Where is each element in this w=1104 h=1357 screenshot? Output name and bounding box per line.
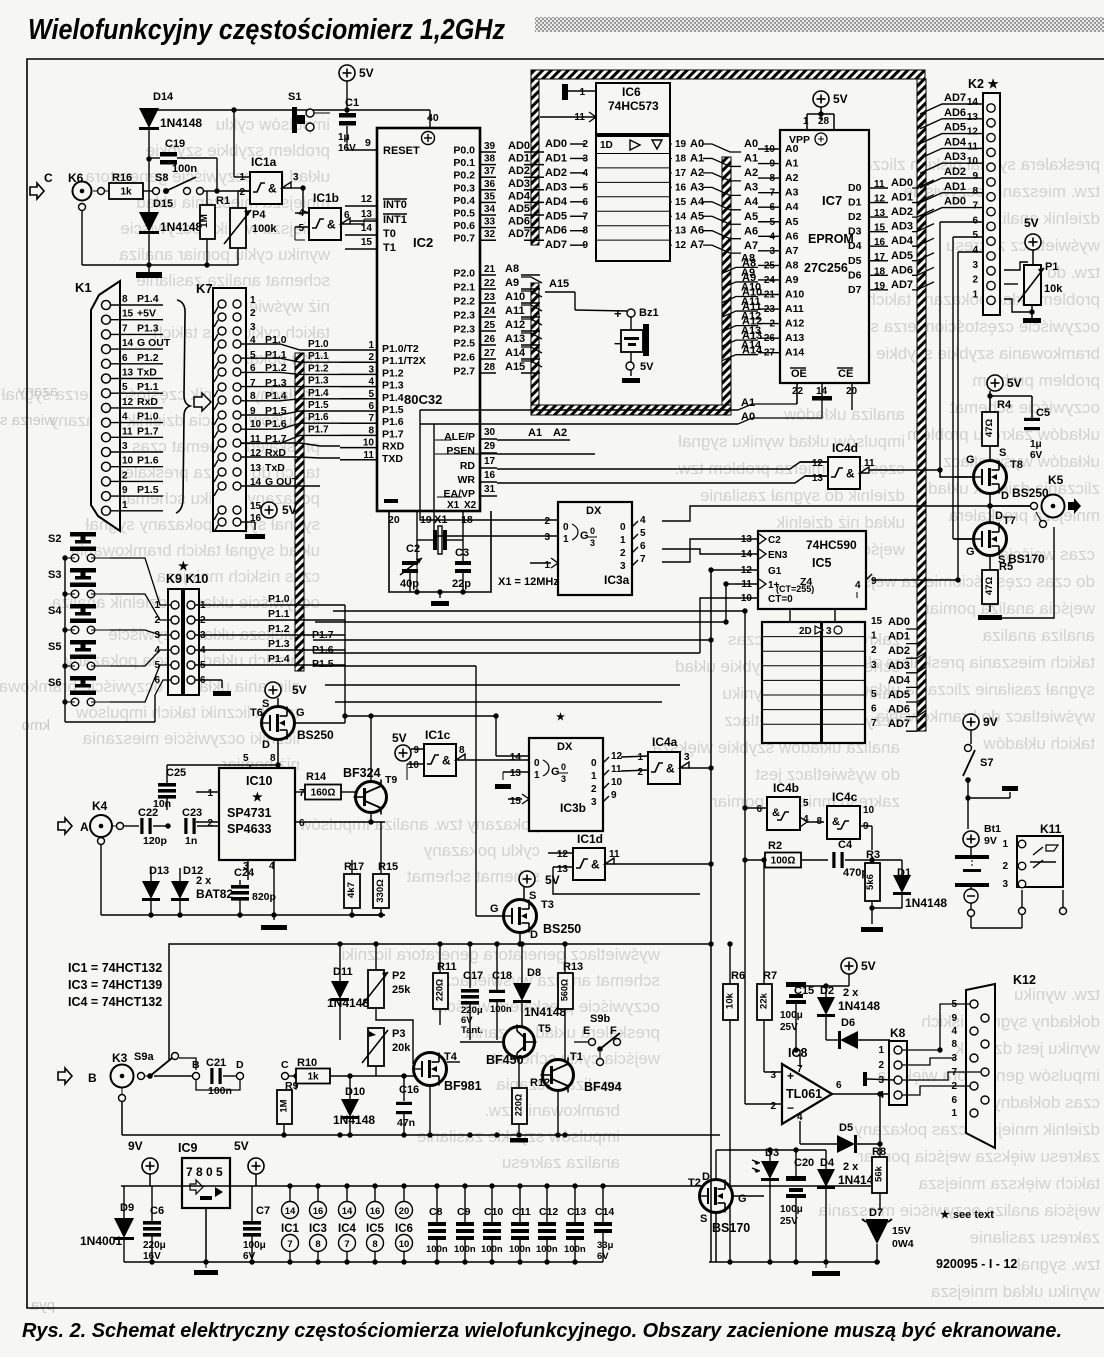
svg-text:AD7: AD7 — [944, 92, 966, 104]
svg-text:IC3: IC3 — [309, 1223, 327, 1235]
svg-text:A1: A1 — [690, 152, 704, 164]
svg-text:TL061: TL061 — [786, 1087, 822, 1101]
svg-text:2: 2 — [637, 767, 643, 778]
svg-text:20k: 20k — [392, 1042, 411, 1054]
svg-text:8: 8 — [122, 294, 128, 305]
svg-text:2: 2 — [239, 187, 245, 198]
svg-text:zliczania układów oczywiście b: zliczania układów oczywiście bramkowania — [0, 677, 300, 696]
svg-text:1: 1 — [207, 788, 213, 799]
svg-text:1: 1 — [620, 535, 626, 546]
svg-text:A6: A6 — [744, 225, 758, 237]
svg-text:C18: C18 — [492, 970, 512, 982]
svg-text:A3: A3 — [690, 181, 704, 193]
svg-text:5V: 5V — [282, 503, 297, 517]
svg-text:38: 38 — [484, 154, 496, 165]
svg-text:G: G — [580, 530, 589, 542]
svg-text:C: C — [281, 1059, 289, 1071]
svg-text:tzw. mieszania oczywiście: tzw. mieszania oczywiście — [903, 182, 1100, 201]
svg-text:160Ω: 160Ω — [311, 788, 336, 799]
svg-text:X2: X2 — [464, 500, 477, 511]
svg-text:AD3: AD3 — [508, 178, 530, 190]
svg-text:7: 7 — [582, 211, 588, 222]
svg-text:P1.2: P1.2 — [382, 367, 404, 379]
svg-text:0: 0 — [591, 758, 597, 769]
svg-text:P2.0: P2.0 — [453, 268, 475, 280]
svg-text:T9: T9 — [385, 774, 397, 786]
svg-text:A0: A0 — [785, 143, 799, 155]
svg-text:A15: A15 — [549, 278, 569, 290]
svg-text:2: 2 — [544, 516, 550, 527]
svg-text:D5: D5 — [848, 255, 862, 267]
svg-text:C2: C2 — [768, 535, 781, 546]
svg-text:R7: R7 — [763, 970, 777, 982]
svg-text:16: 16 — [484, 470, 496, 481]
svg-text:31: 31 — [484, 484, 496, 495]
svg-text:A8: A8 — [785, 259, 799, 271]
svg-text:35: 35 — [484, 191, 496, 202]
svg-text:kmo: kmo — [22, 717, 50, 734]
svg-text:S5: S5 — [48, 641, 61, 653]
svg-text:13: 13 — [967, 112, 979, 123]
svg-text:D5: D5 — [839, 1122, 853, 1134]
svg-text:bramkowania tzw.: bramkowania tzw. — [485, 1101, 620, 1120]
svg-text:D7: D7 — [848, 284, 862, 296]
svg-text:A12: A12 — [505, 319, 525, 331]
svg-text:tzw. wyniku: tzw. wyniku — [1014, 985, 1100, 1004]
svg-text:azany: azany — [17, 383, 58, 400]
svg-text:220Ω: 220Ω — [435, 979, 445, 1001]
svg-text:S: S — [529, 890, 536, 902]
svg-text:CT=0: CT=0 — [768, 594, 793, 605]
svg-text:8: 8 — [972, 186, 978, 197]
svg-text:IC4: IC4 — [338, 1223, 357, 1235]
svg-text:2: 2 — [972, 275, 978, 286]
svg-text:0: 0 — [620, 522, 626, 533]
svg-text:dzielnik analiza: dzielnik analiza — [984, 209, 1100, 228]
svg-text:24: 24 — [484, 306, 496, 317]
svg-text:D1: D1 — [848, 197, 862, 209]
svg-text:A: A — [80, 820, 89, 834]
svg-text:5V: 5V — [292, 683, 307, 697]
svg-text:AD5: AD5 — [508, 203, 530, 215]
svg-text:2: 2 — [250, 308, 256, 319]
svg-text:A7: A7 — [744, 240, 758, 252]
svg-text:B: B — [88, 1071, 97, 1085]
svg-text:3: 3 — [972, 260, 978, 271]
svg-text:A15: A15 — [505, 361, 525, 373]
svg-text:74HC590: 74HC590 — [806, 538, 857, 552]
svg-text:S: S — [700, 1213, 707, 1225]
svg-text:&: & — [846, 467, 855, 481]
svg-text:P1.4: P1.4 — [382, 392, 404, 404]
svg-text:D9: D9 — [120, 1202, 134, 1214]
svg-text:25: 25 — [484, 320, 496, 331]
svg-text:IC1 = 74HCT132: IC1 = 74HCT132 — [68, 961, 162, 975]
svg-text:17: 17 — [675, 168, 687, 179]
svg-text:D15: D15 — [153, 198, 173, 210]
svg-text:7: 7 — [640, 554, 646, 565]
svg-text:220μ: 220μ — [143, 1240, 166, 1251]
svg-text:12: 12 — [967, 127, 979, 138]
svg-text:AD3: AD3 — [891, 221, 913, 233]
svg-text:G: G — [738, 1193, 747, 1205]
svg-text:IC6: IC6 — [395, 1223, 413, 1235]
svg-text:1M: 1M — [279, 1099, 290, 1112]
svg-text:AD1: AD1 — [891, 192, 913, 204]
svg-text:A0: A0 — [690, 138, 704, 150]
svg-text:A1: A1 — [744, 153, 758, 165]
svg-text:AD0: AD0 — [891, 177, 913, 189]
svg-text:2: 2 — [1002, 861, 1008, 872]
svg-text:5: 5 — [243, 753, 249, 764]
svg-text:A10: A10 — [505, 291, 525, 303]
svg-text:układów zakresu problem: układów zakresu problem — [907, 425, 1100, 444]
svg-text:10: 10 — [250, 419, 262, 430]
svg-text:4k7: 4k7 — [346, 882, 357, 898]
svg-text:BS250: BS250 — [1012, 486, 1049, 500]
svg-text:3: 3 — [591, 797, 597, 808]
svg-text:T6: T6 — [250, 707, 263, 719]
svg-text:R14: R14 — [306, 771, 327, 783]
svg-text:AD3: AD3 — [545, 181, 567, 193]
svg-text:S: S — [999, 447, 1006, 459]
svg-text:22: 22 — [792, 386, 804, 397]
svg-text:100μ: 100μ — [780, 1010, 803, 1021]
svg-text:wierza syg: wierza syg — [0, 412, 56, 429]
svg-text:K2 ★: K2 ★ — [968, 77, 999, 91]
svg-text:Wielofunkcyjny częstościomierz: Wielofunkcyjny częstościomierz 1,2GHz — [28, 14, 505, 46]
svg-text:EN3: EN3 — [768, 550, 788, 561]
svg-text:10k: 10k — [1044, 283, 1063, 295]
svg-text:P0.1: P0.1 — [453, 157, 475, 169]
svg-text:X1 = 12MHz: X1 = 12MHz — [498, 576, 559, 588]
svg-text:10: 10 — [863, 805, 875, 816]
svg-text:3: 3 — [561, 774, 566, 784]
svg-text:C7: C7 — [256, 1205, 270, 1217]
svg-text:E: E — [583, 1025, 590, 1037]
svg-text:&: & — [591, 858, 600, 872]
svg-text:BF494: BF494 — [584, 1080, 622, 1094]
svg-text:5: 5 — [250, 350, 256, 361]
svg-text:12: 12 — [812, 458, 824, 469]
svg-text:39: 39 — [484, 141, 496, 152]
svg-text:100n: 100n — [208, 1085, 232, 1097]
svg-text:&: & — [832, 816, 840, 828]
svg-text:1: 1 — [250, 295, 256, 306]
svg-text:16: 16 — [675, 182, 687, 193]
svg-text:czas dokładny: czas dokładny — [992, 1093, 1100, 1112]
svg-text:3: 3 — [1002, 879, 1008, 890]
svg-text:40p: 40p — [400, 578, 419, 590]
svg-text:★: ★ — [178, 559, 189, 573]
svg-text:DX: DX — [557, 741, 573, 753]
svg-text:6: 6 — [871, 704, 877, 715]
svg-text:1: 1 — [122, 500, 128, 511]
svg-text:P1.4: P1.4 — [137, 293, 159, 305]
svg-text:BF981: BF981 — [444, 1079, 482, 1093]
svg-text:K5: K5 — [1048, 473, 1064, 487]
svg-text:A7: A7 — [785, 245, 799, 257]
svg-text:IC4d: IC4d — [832, 441, 858, 455]
svg-text:1k: 1k — [307, 1072, 319, 1083]
svg-text:1μ: 1μ — [338, 132, 350, 143]
svg-text:11: 11 — [864, 458, 875, 469]
svg-text:37: 37 — [484, 166, 496, 177]
svg-text:820p: 820p — [252, 891, 276, 903]
svg-text:RXD: RXD — [382, 441, 405, 453]
svg-text:3: 3 — [582, 153, 588, 164]
svg-text:6: 6 — [836, 1080, 842, 1091]
svg-text:40: 40 — [427, 112, 439, 124]
svg-text:P4: P4 — [252, 209, 266, 221]
svg-text:1: 1 — [544, 560, 550, 571]
svg-text:100n: 100n — [490, 1004, 512, 1015]
svg-text:9: 9 — [611, 790, 617, 801]
svg-text:1N4148: 1N4148 — [160, 116, 202, 130]
svg-text:A8: A8 — [505, 263, 519, 275]
svg-text:P0.3: P0.3 — [453, 182, 475, 194]
svg-text:takich układów: takich układów — [983, 734, 1095, 753]
svg-text:K11: K11 — [1040, 822, 1062, 836]
svg-text:3: 3 — [684, 752, 690, 763]
svg-text:S9b: S9b — [590, 1013, 610, 1025]
svg-text:Bz1: Bz1 — [639, 307, 659, 319]
svg-text:IC9: IC9 — [178, 1141, 198, 1155]
svg-text:IC1a: IC1a — [251, 155, 277, 169]
svg-text:(CT=255): (CT=255) — [776, 584, 814, 594]
svg-text:15: 15 — [361, 237, 373, 248]
svg-text:&: & — [442, 754, 451, 768]
svg-text:1: 1 — [563, 534, 569, 545]
svg-text:26: 26 — [484, 334, 496, 345]
svg-text:zakresu zasilanie: zakresu zasilanie — [970, 1228, 1100, 1247]
svg-text:11: 11 — [609, 849, 620, 860]
svg-text:P0.4: P0.4 — [453, 195, 475, 207]
svg-text:S6: S6 — [48, 677, 61, 689]
svg-text:P2.3: P2.3 — [453, 310, 475, 322]
svg-text:wejścia analiza pomiar: wejścia analiza pomiar — [924, 599, 1096, 618]
svg-text:20: 20 — [399, 1206, 410, 1217]
svg-text:2: 2 — [591, 784, 597, 795]
svg-text:8: 8 — [582, 226, 588, 237]
svg-text:9: 9 — [582, 240, 588, 251]
svg-text:29: 29 — [484, 441, 496, 452]
svg-text:C13: C13 — [567, 1206, 586, 1218]
svg-text:5: 5 — [871, 689, 877, 700]
svg-text:G1: G1 — [768, 566, 782, 577]
svg-text:T1: T1 — [383, 242, 396, 254]
svg-text:AD5: AD5 — [545, 210, 567, 222]
svg-text:21: 21 — [484, 264, 496, 275]
svg-text:A1: A1 — [528, 427, 542, 439]
svg-text:A4: A4 — [785, 201, 799, 213]
svg-text:P1.5: P1.5 — [137, 484, 159, 496]
svg-text:15: 15 — [122, 309, 134, 320]
svg-text:T8: T8 — [1010, 459, 1023, 471]
svg-text:A5: A5 — [785, 216, 799, 228]
svg-text:IC3b: IC3b — [560, 801, 586, 815]
svg-text:2: 2 — [770, 1101, 776, 1112]
svg-text:T2: T2 — [688, 1177, 701, 1189]
svg-text:P3: P3 — [392, 1028, 405, 1040]
svg-text:1+: 1+ — [768, 580, 780, 591]
svg-text:AD0: AD0 — [545, 138, 567, 150]
svg-text:A13: A13 — [741, 325, 761, 337]
svg-text:AD7: AD7 — [891, 279, 913, 291]
svg-text:12: 12 — [557, 849, 569, 860]
svg-text:6: 6 — [122, 353, 128, 364]
svg-text:6V: 6V — [1030, 450, 1043, 461]
svg-text:P2.5: P2.5 — [453, 338, 475, 350]
svg-text:8: 8 — [951, 1039, 957, 1050]
svg-text:P1.0: P1.0 — [137, 411, 159, 423]
svg-text:S8: S8 — [155, 172, 168, 184]
svg-text:1: 1 — [579, 87, 585, 98]
svg-text:AD5: AD5 — [888, 689, 910, 701]
svg-text:P0.0: P0.0 — [453, 145, 475, 157]
svg-text:16: 16 — [313, 1206, 324, 1217]
svg-text:R1: R1 — [216, 195, 230, 207]
svg-text:TxD: TxD — [265, 462, 285, 474]
svg-text:IC1d: IC1d — [577, 832, 603, 846]
svg-text:C10: C10 — [484, 1206, 503, 1218]
svg-text:100μ: 100μ — [780, 1204, 803, 1215]
svg-text:IC4a: IC4a — [652, 735, 678, 749]
svg-text:D: D — [530, 929, 538, 941]
svg-text:A2: A2 — [553, 427, 567, 439]
svg-text:P1.7: P1.7 — [308, 424, 329, 435]
svg-text:D13: D13 — [149, 865, 169, 877]
svg-text:120p: 120p — [143, 835, 167, 847]
svg-text:13: 13 — [675, 226, 687, 237]
svg-text:6: 6 — [582, 197, 588, 208]
svg-text:AD4: AD4 — [508, 190, 531, 202]
svg-text:15: 15 — [510, 796, 522, 807]
svg-text:pya: pya — [30, 1297, 55, 1314]
svg-text:RxD: RxD — [137, 396, 158, 408]
svg-text:P1.2: P1.2 — [268, 623, 290, 635]
svg-text:1D: 1D — [600, 140, 613, 151]
svg-text:C12: C12 — [539, 1206, 558, 1218]
svg-text:A4: A4 — [744, 196, 759, 208]
svg-text:IC2: IC2 — [413, 235, 433, 250]
svg-text:1N4148: 1N4148 — [905, 896, 947, 910]
svg-text:P1.3: P1.3 — [382, 380, 404, 392]
svg-text:P1.5: P1.5 — [382, 404, 404, 416]
svg-text:11: 11 — [122, 426, 133, 437]
svg-text:27C256: 27C256 — [804, 261, 848, 275]
svg-text:12: 12 — [611, 751, 623, 762]
svg-text:P0.6: P0.6 — [453, 220, 475, 232]
svg-text:3: 3 — [620, 561, 626, 572]
svg-text:AD0: AD0 — [508, 140, 530, 152]
svg-text:&: & — [268, 182, 277, 196]
svg-text:P1.0: P1.0 — [268, 593, 290, 605]
svg-text:10: 10 — [611, 777, 623, 788]
svg-text:5V: 5V — [1007, 376, 1022, 390]
svg-text:K12: K12 — [1013, 973, 1036, 987]
svg-text:A12: A12 — [741, 311, 761, 323]
svg-text:10: 10 — [399, 1239, 410, 1250]
svg-text:IC5: IC5 — [366, 1223, 385, 1235]
svg-text:R13: R13 — [563, 961, 583, 973]
svg-text:12: 12 — [122, 397, 134, 408]
svg-text:7: 7 — [972, 201, 978, 212]
svg-text:9: 9 — [972, 171, 978, 182]
svg-text:A5: A5 — [690, 210, 704, 222]
svg-text:Tant.: Tant. — [461, 1025, 483, 1036]
svg-text:A11: A11 — [505, 305, 525, 317]
svg-text:9V: 9V — [983, 715, 998, 729]
svg-text:1N4148: 1N4148 — [838, 999, 880, 1013]
svg-text:analiza zakresu: analiza zakresu — [502, 1153, 620, 1172]
svg-text:AD4: AD4 — [944, 136, 967, 148]
svg-text:C9: C9 — [457, 1206, 471, 1218]
svg-text:47n: 47n — [397, 1117, 415, 1129]
svg-text:IC3a: IC3a — [604, 573, 630, 587]
svg-text:2: 2 — [582, 139, 588, 150]
svg-text:17: 17 — [484, 456, 496, 467]
svg-text:CE: CE — [838, 368, 853, 380]
svg-text:2 x: 2 x — [843, 1161, 859, 1173]
svg-text:BS170: BS170 — [1008, 552, 1045, 566]
svg-text:P1.3: P1.3 — [137, 322, 159, 334]
svg-text:C22: C22 — [138, 807, 158, 819]
svg-text:AD6: AD6 — [944, 107, 966, 119]
svg-text:22: 22 — [484, 278, 496, 289]
svg-text:A6: A6 — [690, 225, 704, 237]
svg-text:5V: 5V — [545, 873, 560, 887]
svg-text:7 8 0 5: 7 8 0 5 — [186, 1165, 223, 1179]
svg-text:A7: A7 — [690, 239, 704, 251]
svg-text:30: 30 — [484, 427, 496, 438]
svg-text:4: 4 — [640, 515, 646, 526]
svg-text:9: 9 — [951, 1013, 957, 1024]
svg-text:A11: A11 — [785, 303, 804, 315]
svg-text:A14: A14 — [741, 340, 762, 352]
svg-text:P1.2: P1.2 — [137, 352, 159, 364]
svg-text:7: 7 — [250, 378, 256, 389]
svg-text:AD6: AD6 — [508, 216, 530, 228]
svg-text:P2.2: P2.2 — [453, 296, 475, 308]
svg-text:D7: D7 — [869, 1207, 883, 1219]
svg-text:C17: C17 — [463, 970, 483, 982]
svg-text:SP4731: SP4731 — [227, 806, 272, 820]
svg-text:DX: DX — [586, 505, 602, 517]
svg-text:P1: P1 — [1045, 261, 1058, 273]
svg-text:AD5: AD5 — [944, 122, 966, 134]
svg-text:★: ★ — [556, 712, 565, 723]
svg-text:AD2: AD2 — [891, 206, 913, 218]
svg-text:5V: 5V — [861, 959, 876, 973]
svg-text:Bt1: Bt1 — [984, 823, 1001, 835]
svg-text:D: D — [1001, 490, 1009, 502]
svg-text:25k: 25k — [392, 984, 411, 996]
svg-text:★ see text: ★ see text — [940, 1209, 994, 1221]
svg-text:9V: 9V — [128, 1139, 143, 1153]
svg-text:AD5: AD5 — [891, 250, 913, 262]
svg-text:28: 28 — [818, 116, 830, 127]
svg-text:IC4 = 74HCT132: IC4 = 74HCT132 — [68, 995, 162, 1009]
svg-text:R17: R17 — [344, 861, 364, 873]
svg-text:T5: T5 — [538, 1023, 551, 1035]
svg-text:X1: X1 — [447, 500, 460, 511]
svg-text:D2: D2 — [848, 211, 862, 223]
svg-text:K3: K3 — [112, 1051, 128, 1065]
svg-text:EPROM: EPROM — [808, 232, 854, 246]
svg-text:układ sygnał takich bramkowani: układ sygnał takich bramkowania — [70, 541, 320, 560]
svg-text:A14: A14 — [785, 347, 804, 359]
